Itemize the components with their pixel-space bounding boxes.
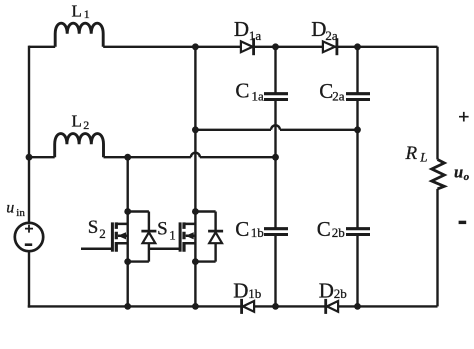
svg-text:C: C: [317, 217, 331, 241]
svg-text:2a: 2a: [325, 28, 338, 43]
svg-text:C: C: [235, 217, 249, 241]
svg-text:D: D: [233, 278, 248, 302]
svg-text:1: 1: [169, 227, 176, 242]
svg-text:2: 2: [99, 226, 106, 241]
svg-text:D: D: [234, 17, 249, 41]
svg-text:R: R: [405, 143, 418, 164]
svg-text:o: o: [464, 171, 470, 183]
svg-text:C: C: [319, 79, 333, 103]
svg-text:2: 2: [83, 118, 89, 132]
svg-text:in: in: [16, 207, 25, 219]
svg-text:L: L: [72, 111, 82, 130]
svg-text:L: L: [72, 2, 82, 21]
svg-text:1a: 1a: [249, 28, 262, 43]
svg-text:D: D: [311, 17, 326, 41]
svg-text:1: 1: [84, 7, 90, 21]
svg-text:1b: 1b: [248, 286, 261, 301]
svg-text:S: S: [157, 219, 168, 240]
svg-text:2a: 2a: [332, 89, 345, 104]
svg-text:u: u: [6, 200, 14, 217]
svg-text:u: u: [454, 163, 463, 182]
svg-text:D: D: [319, 278, 334, 302]
svg-text:S: S: [88, 217, 99, 238]
svg-text:1b: 1b: [251, 225, 264, 240]
svg-text:L: L: [419, 150, 427, 165]
svg-text:C: C: [235, 78, 249, 102]
svg-text:1a: 1a: [252, 88, 265, 103]
svg-text:2b: 2b: [334, 286, 347, 301]
svg-text:2b: 2b: [332, 225, 345, 240]
